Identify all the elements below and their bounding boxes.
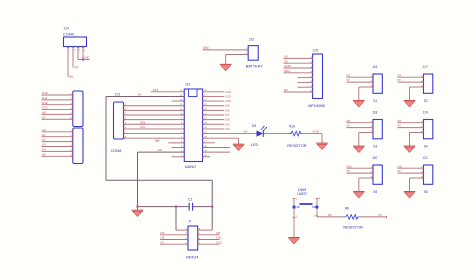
svg-text:S5: S5 bbox=[373, 190, 377, 194]
ground J16 bbox=[353, 101, 365, 107]
net label VIN bbox=[203, 46, 209, 50]
net label SCL bbox=[140, 125, 146, 129]
svg-text:R16: R16 bbox=[289, 125, 295, 129]
connector J18 S3 bbox=[371, 111, 383, 149]
net label D3 bbox=[347, 73, 351, 77]
svg-text:D8: D8 bbox=[226, 108, 230, 112]
wire NANO pin1 stub bbox=[151, 91, 185, 93]
svg-text:D9: D9 bbox=[252, 124, 256, 128]
svg-text:NRF24: NRF24 bbox=[186, 256, 198, 260]
ground DW9 bbox=[288, 238, 300, 244]
connector J20 S5 bbox=[371, 156, 383, 194]
wires NANO right stubs bbox=[203, 92, 231, 157]
svg-text:5V: 5V bbox=[347, 169, 351, 173]
svg-text:NANO: NANO bbox=[185, 164, 196, 169]
ground battery bbox=[220, 64, 232, 70]
svg-text:A0: A0 bbox=[42, 128, 46, 132]
wire D6 to J19 bbox=[398, 122, 424, 124]
svg-text:D11: D11 bbox=[42, 96, 48, 100]
svg-text:D11: D11 bbox=[216, 236, 222, 240]
svg-text:D7: D7 bbox=[226, 113, 230, 117]
svg-text:5V: 5V bbox=[398, 169, 402, 173]
wire D11 to J21 bbox=[398, 167, 424, 169]
svg-text:J17: J17 bbox=[423, 65, 428, 69]
ground J18 bbox=[353, 146, 365, 152]
net label D4 bbox=[244, 130, 248, 134]
net label GND bbox=[313, 130, 319, 134]
wire NRF right pin to rail bbox=[198, 229, 213, 231]
svg-text:A7: A7 bbox=[42, 115, 46, 119]
module J15 MPU6050 bbox=[308, 49, 325, 109]
wire NANO 5V loop bbox=[106, 96, 212, 230]
net label 5V bbox=[69, 75, 74, 79]
connector J21 S6 bbox=[421, 156, 433, 194]
net label D11 bbox=[398, 164, 403, 168]
net label 5V bbox=[398, 78, 402, 82]
net labels D12..D3 bbox=[226, 90, 232, 131]
wire J18 pin3 to ground bbox=[359, 133, 373, 147]
svg-text:RESISTOR: RESISTOR bbox=[343, 226, 363, 230]
svg-text:D7: D7 bbox=[161, 240, 165, 244]
svg-text:SCL: SCL bbox=[140, 125, 146, 129]
net label 5V bbox=[347, 124, 351, 128]
svg-text:D2: D2 bbox=[284, 88, 288, 92]
net label 5V bbox=[378, 213, 382, 217]
pushbutton DW9 UART bbox=[293, 188, 319, 208]
svg-text:D6: D6 bbox=[161, 236, 165, 240]
svg-text:D3: D3 bbox=[226, 127, 230, 131]
svg-text:D10: D10 bbox=[42, 91, 48, 95]
svg-text:S6: S6 bbox=[424, 190, 428, 194]
junction bbox=[175, 206, 177, 208]
net label D10 bbox=[347, 164, 353, 168]
wire J17 pin3 to ground bbox=[410, 87, 424, 101]
wire J21 pin3 to ground bbox=[410, 178, 424, 192]
svg-text:C1: C1 bbox=[188, 198, 192, 202]
connector CON6 upper-left bbox=[42, 91, 84, 127]
wire 5V to J19 bbox=[398, 127, 424, 129]
connector J19 S4 bbox=[421, 111, 433, 149]
svg-text:VIN: VIN bbox=[203, 46, 209, 50]
wire NANO pin13 stub bbox=[172, 146, 185, 148]
svg-text:D13: D13 bbox=[153, 88, 159, 92]
svg-text:BATTERY: BATTERY bbox=[246, 65, 264, 69]
svg-text:D8: D8 bbox=[216, 231, 220, 235]
wire NANO GND pin bbox=[203, 138, 239, 144]
wire NANO D4 to LED bbox=[203, 133, 257, 135]
svg-text:J15: J15 bbox=[313, 49, 318, 53]
svg-text:S3: S3 bbox=[373, 144, 377, 148]
net label 5V bbox=[398, 124, 402, 128]
svg-text:A4: A4 bbox=[42, 148, 46, 152]
wires MPU6050 pins bbox=[284, 58, 313, 92]
wire DW9 pin4 bbox=[316, 198, 319, 206]
svg-text:D12: D12 bbox=[216, 240, 222, 244]
wire 5V to J16 bbox=[347, 81, 374, 83]
svg-text:A6: A6 bbox=[42, 111, 46, 115]
resistor R6 bbox=[343, 207, 363, 230]
net labels MPU6050 bbox=[284, 55, 292, 93]
svg-text:D6: D6 bbox=[398, 119, 402, 123]
svg-text:D4: D4 bbox=[398, 73, 402, 77]
svg-text:D10: D10 bbox=[347, 164, 353, 168]
connector J16 S1 bbox=[371, 65, 383, 103]
wire J14 pin3 down bbox=[77, 47, 79, 60]
svg-text:GND: GND bbox=[313, 130, 319, 134]
svg-text:5V: 5V bbox=[347, 78, 351, 82]
svg-text:D4: D4 bbox=[244, 130, 248, 134]
svg-text:D6: D6 bbox=[226, 118, 230, 122]
net label D6 bbox=[398, 119, 402, 123]
svg-text:S1: S1 bbox=[373, 99, 377, 103]
junction bbox=[82, 58, 84, 60]
wire J19 pin3 to ground bbox=[410, 133, 424, 147]
svg-text:D10: D10 bbox=[226, 99, 232, 103]
svg-text:CON4: CON4 bbox=[63, 32, 75, 37]
svg-text:A3: A3 bbox=[42, 143, 46, 147]
svg-text:J19: J19 bbox=[423, 111, 428, 115]
net label SDA bbox=[140, 120, 146, 124]
net label 5V bbox=[347, 78, 351, 82]
svg-text:J21: J21 bbox=[423, 156, 428, 160]
wire NANO pin3 stub bbox=[172, 100, 185, 102]
svg-text:J7: J7 bbox=[188, 219, 192, 223]
junction bbox=[136, 206, 138, 208]
svg-text:J16: J16 bbox=[372, 65, 377, 69]
net label 5V bbox=[138, 92, 142, 96]
net label 5V bbox=[398, 169, 402, 173]
wire DW9 pin2 to ground bbox=[293, 209, 296, 238]
svg-text:D12: D12 bbox=[42, 101, 48, 105]
svg-text:J13: J13 bbox=[115, 92, 120, 96]
svg-text:D5: D5 bbox=[226, 122, 230, 126]
pin number 4 bbox=[319, 198, 321, 201]
svg-text:D8: D8 bbox=[328, 213, 332, 217]
wire NANO pin12 bbox=[168, 142, 184, 144]
capacitor C1 bbox=[188, 198, 193, 211]
wire battery pin2 to ground bbox=[226, 55, 249, 65]
wire NANO VIN down bbox=[138, 152, 185, 206]
net label D4 bbox=[398, 73, 402, 77]
wire D3 to J16 bbox=[347, 76, 374, 78]
pin number 1 bbox=[296, 198, 298, 201]
svg-text:J12: J12 bbox=[185, 82, 190, 86]
net label 3V bbox=[74, 65, 79, 69]
connector J13 CON8 bbox=[111, 92, 127, 153]
svg-text:D12: D12 bbox=[226, 90, 232, 94]
net label D5 bbox=[347, 119, 351, 123]
net label D8 bbox=[328, 213, 332, 217]
svg-text:LED: LED bbox=[251, 143, 259, 147]
wire 5V to J17 bbox=[398, 81, 424, 83]
svg-text:MPU6050: MPU6050 bbox=[308, 104, 325, 108]
IC U-module J12 NANO bbox=[180, 82, 207, 169]
svg-text:D5: D5 bbox=[161, 231, 165, 235]
wire R6 to 5V bbox=[359, 216, 386, 219]
module J7 NRF24 bbox=[185, 219, 201, 259]
wire J16 pin3 to ground bbox=[359, 87, 373, 101]
pin number 3 bbox=[314, 214, 316, 217]
svg-text:A5: A5 bbox=[42, 152, 46, 156]
svg-text:D11: D11 bbox=[226, 94, 232, 98]
svg-text:SDA: SDA bbox=[140, 120, 146, 124]
ground J21 bbox=[404, 192, 416, 198]
svg-text:J14: J14 bbox=[64, 26, 69, 30]
net labels NRF24 bbox=[161, 231, 223, 244]
svg-text:5V: 5V bbox=[347, 124, 351, 128]
wires NRF24 signals bbox=[160, 235, 220, 244]
svg-text:J20: J20 bbox=[372, 156, 377, 160]
svg-text:5V: 5V bbox=[398, 124, 402, 128]
svg-text:GND: GND bbox=[284, 64, 292, 68]
svg-text:GND: GND bbox=[84, 55, 90, 59]
wire VIN to battery bbox=[203, 49, 249, 51]
ground NANO right bbox=[233, 144, 245, 150]
svg-text:D9: D9 bbox=[226, 104, 230, 108]
wire J14 pin1 to 5V bbox=[67, 47, 69, 78]
resistor R16 bbox=[287, 125, 307, 148]
net label GND bbox=[84, 55, 90, 59]
svg-text:S2: S2 bbox=[424, 99, 428, 103]
svg-text:5V: 5V bbox=[378, 213, 382, 217]
wire C1 left to NRF pin1 bbox=[176, 207, 188, 231]
svg-text:SDA: SDA bbox=[284, 69, 291, 73]
wire R16 to ground bbox=[302, 134, 322, 144]
svg-text:5V: 5V bbox=[155, 139, 159, 143]
svg-text:A2: A2 bbox=[42, 138, 46, 142]
wire J14 pin2 to 3V bbox=[72, 47, 74, 68]
svg-text:A1: A1 bbox=[42, 133, 46, 137]
connector J14 CON4 bbox=[63, 26, 87, 51]
wire D4 to J17 bbox=[398, 76, 424, 78]
ground rail symbol bbox=[132, 207, 144, 217]
wire D5 to J18 bbox=[347, 122, 374, 124]
svg-text:RESISTOR: RESISTOR bbox=[287, 144, 307, 148]
svg-text:R6: R6 bbox=[345, 207, 349, 211]
wire NANO pin15 stub bbox=[172, 156, 185, 158]
svg-text:D13: D13 bbox=[42, 106, 48, 110]
net label 5V bbox=[155, 139, 159, 143]
svg-text:J22: J22 bbox=[249, 37, 254, 41]
ground J17 bbox=[404, 101, 416, 107]
LED D9 bbox=[251, 124, 267, 147]
svg-text:D11: D11 bbox=[398, 164, 403, 168]
wire DW9 pin3 to R6 bbox=[316, 209, 345, 217]
svg-text:5V: 5V bbox=[398, 78, 402, 82]
svg-text:D3: D3 bbox=[347, 73, 351, 77]
net label 5V bbox=[157, 139, 161, 143]
wire 5V to J18 bbox=[347, 127, 374, 129]
ground J20 bbox=[353, 192, 365, 198]
svg-text:S4: S4 bbox=[424, 144, 428, 148]
svg-text:5V: 5V bbox=[138, 92, 142, 96]
net label 5V bbox=[347, 169, 351, 173]
net label D13 bbox=[153, 88, 159, 92]
wires CON8 to NANO bbox=[124, 106, 185, 138]
wire D10 to J20 bbox=[347, 167, 374, 169]
wire ground rail bbox=[138, 206, 213, 208]
svg-text:CON8: CON8 bbox=[111, 148, 122, 153]
wire 5V to J20 bbox=[347, 172, 374, 174]
connector CON6 lower-left bbox=[42, 128, 84, 164]
junction bbox=[211, 206, 213, 208]
net label VIN bbox=[158, 148, 163, 152]
ground J19 bbox=[404, 146, 416, 152]
ground LED branch bbox=[316, 143, 328, 149]
connector J22 BATTERY bbox=[245, 37, 263, 68]
wire J14 pin4 to GND rail bbox=[78, 47, 90, 60]
svg-text:J18: J18 bbox=[372, 111, 377, 115]
connector J17 S2 bbox=[421, 65, 433, 103]
svg-text:UART: UART bbox=[297, 192, 308, 196]
wire J20 pin3 to ground bbox=[359, 178, 373, 192]
svg-text:D5: D5 bbox=[347, 119, 351, 123]
wire 5V to J21 bbox=[398, 172, 424, 174]
wire DW9 pin1 bbox=[293, 198, 296, 206]
pin number 2 bbox=[296, 216, 298, 219]
wire LED to R16 bbox=[264, 133, 290, 135]
